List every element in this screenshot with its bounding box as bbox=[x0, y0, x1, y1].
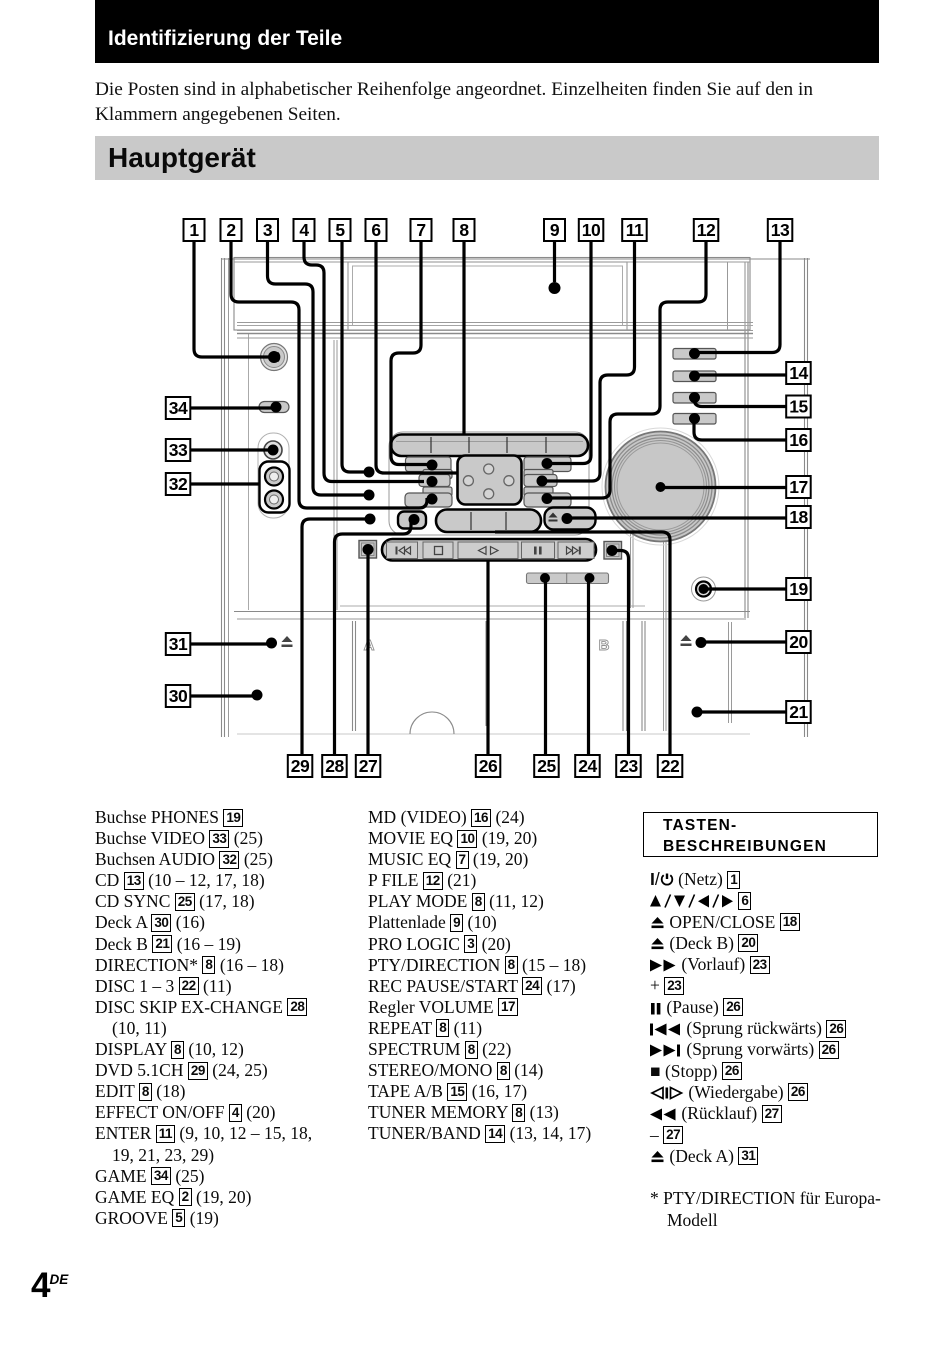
svg-text:27: 27 bbox=[359, 756, 377, 776]
svg-text:11: 11 bbox=[626, 220, 644, 240]
svg-text:8: 8 bbox=[459, 220, 469, 240]
svg-text:16: 16 bbox=[789, 430, 808, 450]
svg-text:4: 4 bbox=[299, 220, 309, 240]
svg-text:3: 3 bbox=[263, 220, 273, 240]
svg-text:9: 9 bbox=[550, 220, 560, 240]
svg-text:5: 5 bbox=[335, 220, 345, 240]
svg-text:18: 18 bbox=[789, 507, 808, 527]
svg-text:22: 22 bbox=[661, 756, 680, 776]
svg-text:23: 23 bbox=[619, 756, 638, 776]
svg-text:31: 31 bbox=[169, 634, 188, 654]
svg-text:19: 19 bbox=[789, 579, 808, 599]
svg-text:10: 10 bbox=[582, 220, 601, 240]
svg-text:26: 26 bbox=[479, 756, 498, 776]
svg-text:24: 24 bbox=[578, 756, 597, 776]
svg-text:15: 15 bbox=[789, 397, 808, 417]
svg-text:12: 12 bbox=[697, 220, 716, 240]
svg-text:6: 6 bbox=[371, 220, 381, 240]
svg-text:2: 2 bbox=[226, 220, 236, 240]
svg-text:20: 20 bbox=[789, 632, 808, 652]
svg-text:1: 1 bbox=[189, 220, 199, 240]
svg-text:33: 33 bbox=[169, 440, 188, 460]
svg-text:30: 30 bbox=[169, 686, 188, 706]
svg-text:13: 13 bbox=[771, 220, 790, 240]
svg-text:29: 29 bbox=[291, 756, 310, 776]
svg-text:14: 14 bbox=[789, 363, 808, 383]
svg-text:7: 7 bbox=[416, 220, 425, 240]
svg-text:17: 17 bbox=[789, 477, 807, 497]
svg-text:28: 28 bbox=[325, 756, 344, 776]
svg-text:B: B bbox=[599, 637, 610, 654]
svg-text:25: 25 bbox=[537, 756, 556, 776]
svg-text:21: 21 bbox=[789, 702, 808, 722]
svg-text:32: 32 bbox=[169, 474, 188, 494]
svg-text:34: 34 bbox=[169, 398, 188, 418]
